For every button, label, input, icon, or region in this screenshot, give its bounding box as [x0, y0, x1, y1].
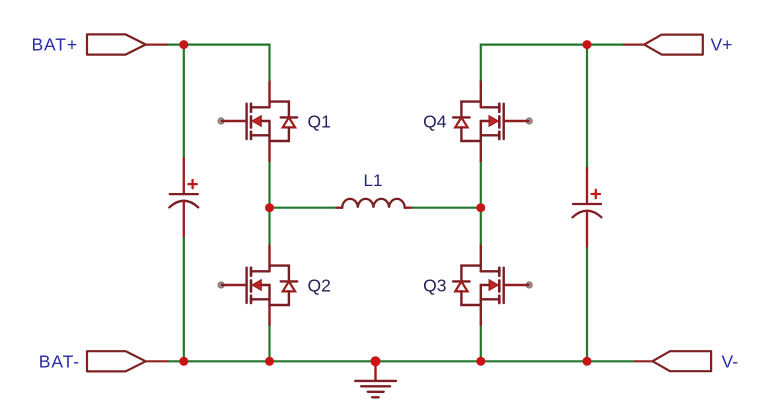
transistor Q3	[453, 246, 532, 325]
wire Q3 source to bottom rail	[480, 324, 482, 361]
inductor L1	[336, 199, 411, 208]
svg-text:BAT-: BAT-	[39, 351, 80, 371]
transistor Q4	[453, 82, 532, 161]
port BAT+	[87, 34, 168, 54]
wire Q1 source to mid node	[268, 160, 270, 208]
wire right cap top branch	[586, 45, 588, 171]
wire left cap bottom branch	[183, 237, 185, 361]
wire mid-left to inductor	[270, 207, 338, 209]
svg-text:BAT+: BAT+	[31, 35, 78, 55]
svg-text:Q1: Q1	[308, 111, 331, 131]
wire mid node to Q2 drain	[268, 208, 270, 246]
wire Q2 source to bottom rail	[268, 324, 270, 361]
port V+	[624, 35, 703, 55]
port BAT-	[87, 351, 169, 371]
wire right cap bottom branch	[586, 246, 588, 361]
junction V- node	[583, 357, 592, 366]
svg-text:L1: L1	[364, 171, 383, 190]
junction BAT- node	[179, 357, 188, 366]
wire Q4 source to mid node	[480, 160, 482, 208]
junction Q2 source node	[265, 357, 274, 366]
transistor Q1	[218, 82, 297, 161]
junction Q3 source node	[476, 357, 485, 366]
junction ground node	[371, 356, 381, 366]
capacitor right (polarized)	[573, 168, 602, 247]
svg-text:V+: V+	[711, 35, 733, 55]
wire left cap top branch	[183, 45, 185, 159]
capacitor left (polarized)	[169, 158, 198, 237]
wire top-right rail	[481, 43, 624, 45]
svg-text:Q3: Q3	[423, 275, 446, 295]
junction mid-left node	[265, 203, 274, 212]
transistor Q2	[218, 246, 297, 325]
svg-text:V-: V-	[722, 351, 739, 371]
ground	[355, 361, 396, 397]
wire top-left rail	[167, 43, 270, 45]
port V-	[634, 351, 711, 371]
svg-text:Q4: Q4	[423, 111, 447, 131]
junction V+ node	[583, 40, 592, 49]
wire mid node to Q3 drain	[480, 208, 482, 246]
junction mid-right node	[476, 203, 485, 212]
junction BAT+ node	[179, 40, 188, 49]
wire Q1 drain drop	[268, 44, 270, 83]
svg-text:Q2: Q2	[308, 275, 331, 295]
wire Q4 drain drop	[480, 44, 482, 83]
wire inductor to mid-right	[411, 207, 481, 209]
wire bottom rail	[168, 360, 634, 362]
